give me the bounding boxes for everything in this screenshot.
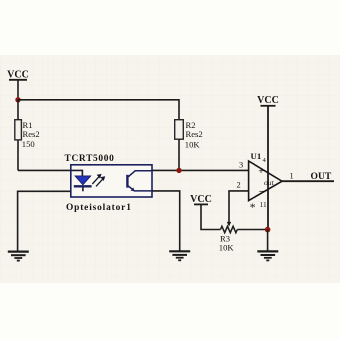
optoisolator U? TCRT5000 box	[65, 154, 153, 213]
power VCC (above op-amp)	[257, 95, 279, 106]
svg-text:OUT: OUT	[311, 171, 332, 182]
wire junction to ground	[267, 230, 269, 251]
svg-text:U1: U1	[251, 151, 262, 161]
potentiometer R3	[219, 222, 268, 253]
ground (right)	[257, 251, 278, 260]
svg-text:150: 150	[22, 139, 35, 149]
power VCC (top left)	[7, 70, 29, 100]
svg-text:10K: 10K	[219, 242, 235, 252]
resistor R1	[15, 100, 40, 171]
svg-text:1: 1	[290, 172, 294, 181]
wire phototransistor collector to op-amp pin 3	[152, 169, 249, 171]
schematic canvas	[0, 55, 340, 283]
svg-text:11: 11	[260, 200, 267, 209]
svg-text:TCRT5000: TCRT5000	[65, 154, 115, 164]
svg-text:VCC: VCC	[7, 70, 29, 81]
output wire pin 1	[282, 180, 334, 182]
resistor R2	[175, 120, 203, 171]
junction R2/collector	[176, 168, 181, 173]
svg-text:VCC: VCC	[257, 95, 279, 106]
supply line through op-amp (pin 4 top / pin 11 bottom)	[267, 106, 269, 230]
wire LED cathode to ground	[18, 191, 71, 251]
svg-text:Opteisolator1: Opteisolator1	[66, 203, 132, 213]
svg-text:+: +	[258, 167, 263, 177]
svg-text:2: 2	[237, 181, 241, 190]
power VCC (bottom middle)	[190, 194, 220, 230]
ground (middle)	[169, 251, 190, 260]
svg-text:out: out	[264, 178, 275, 187]
wire emitter to ground	[152, 191, 180, 251]
op-amp U1	[249, 151, 282, 214]
phototransistor inside optoisolator	[127, 171, 152, 191]
svg-text:Res2: Res2	[23, 129, 40, 139]
svg-text:Res2: Res2	[186, 129, 203, 139]
junction at R1/top rail	[15, 97, 20, 102]
svg-text:*: *	[250, 202, 256, 214]
wire top rail to R2	[18, 100, 179, 120]
ground (left)	[8, 252, 29, 261]
light emission arrows	[92, 175, 104, 187]
wire R1 to optoisolator anode	[18, 169, 71, 171]
svg-text:–: –	[258, 186, 264, 197]
LED inside optoisolator	[71, 170, 92, 191]
svg-text:VCC: VCC	[190, 194, 212, 205]
svg-text:3: 3	[239, 160, 243, 169]
junction R3 / pin11 / ground	[265, 227, 271, 233]
wire op-amp pin 2	[229, 191, 249, 223]
svg-text:10K: 10K	[185, 139, 201, 149]
